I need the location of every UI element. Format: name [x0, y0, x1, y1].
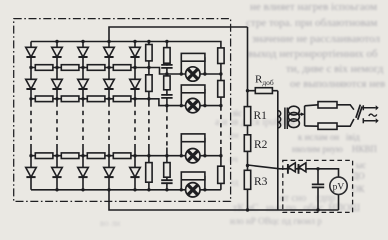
rectifier diode VD1 — [287, 164, 289, 174]
wire right chain lower — [220, 147, 222, 190]
transformer core — [285, 108, 287, 130]
transformer primary winding — [278, 111, 281, 128]
svg-text:R3: R3 — [254, 176, 268, 188]
resistor row 1 cell 3-4 — [87, 65, 105, 71]
capacitor column B middle — [161, 95, 172, 98]
dashed box around rectifier-meter unit — [283, 160, 353, 212]
transformer secondary winding — [288, 106, 299, 127]
lamp cell 3 resistor stubs — [181, 138, 205, 156]
resistor column B middle — [164, 76, 170, 90]
meter pV — [330, 177, 347, 194]
wire column B — [166, 42, 168, 190]
wire bottom bus — [31, 189, 221, 191]
resistor secondary bottom — [318, 123, 337, 129]
node dots bus 3 — [29, 154, 32, 157]
svg-text:Rдоб: Rдоб — [255, 74, 274, 88]
wire top bus — [31, 42, 221, 107]
wire secondary top lead — [305, 105, 354, 110]
dashed continuation column 3 — [82, 103, 84, 148]
resistor row 1 cell 2-3 — [61, 65, 79, 71]
resistor row 2 cell 2-3 — [61, 96, 79, 102]
wire column 3 — [82, 42, 84, 190]
diode row C column 4 — [104, 167, 115, 177]
resistor R1 — [244, 107, 250, 126]
faint bleed-through text from reverse page — [250, 1, 377, 13]
dashed continuation column A — [148, 103, 150, 148]
dashed continuation right chain — [220, 107, 222, 148]
resistor lamp cell 3 — [181, 134, 205, 142]
diode row C column 3 — [78, 167, 89, 177]
plug body — [356, 105, 362, 120]
plug prong top — [363, 105, 375, 110]
resistor row 2 cell 1-2 — [35, 96, 53, 102]
wire column 2 — [56, 42, 58, 190]
resistor lamp cell 2 — [181, 85, 205, 93]
resistor row 3 cell 3-4 — [87, 153, 105, 159]
wire capacitor branch — [317, 169, 319, 210]
resistor row 3 cell 1-2 — [35, 153, 53, 159]
diode row A column 3 — [78, 47, 89, 57]
diode row B column 4 — [104, 79, 115, 89]
svg-text:R2: R2 — [254, 139, 268, 151]
lamp cell 1 resistor stubs — [181, 57, 205, 74]
wire meter bottom lead — [338, 195, 340, 211]
node dots divider chain — [246, 89, 249, 92]
resistor column A bottom — [146, 163, 152, 183]
plug prong bottom — [363, 118, 375, 123]
diode row A column 1 — [26, 47, 37, 57]
diode row A column 2 — [52, 47, 63, 57]
node dots lamp line 2 — [165, 104, 168, 107]
wire bus 1 with jog — [31, 68, 221, 75]
lamp HL3 — [186, 149, 200, 163]
resistor column B bottom — [164, 163, 170, 178]
diode row C column 2 — [52, 167, 63, 177]
resistor row 1 cell 1-2 — [35, 65, 53, 71]
AC tilde mark — [369, 114, 377, 116]
svg-text:R1: R1 — [254, 110, 268, 122]
resistor R3 — [244, 170, 250, 189]
dashed continuation column 2 — [56, 103, 58, 148]
resistor row 3 cell 4-5 — [113, 153, 131, 159]
wire secondary bottom lead — [305, 119, 354, 126]
dashed continuation column 4 — [108, 103, 110, 148]
diode row C column 5 — [130, 167, 141, 177]
node dots bottom bus — [55, 188, 58, 191]
resistor R2 — [244, 135, 250, 152]
resistor row 3 cell 2-3 — [61, 153, 79, 159]
resistor column B top — [164, 48, 170, 64]
dashed continuation column B — [166, 108, 168, 148]
wire bus 3 — [31, 155, 221, 157]
node dots bus 1 — [29, 66, 32, 69]
wire column 5 — [134, 42, 136, 190]
dashed continuation column 1 — [30, 103, 32, 148]
node dots rectifier box — [316, 167, 319, 170]
wire bottom return — [109, 190, 339, 210]
diode row B column 1 — [26, 79, 37, 89]
resistor lamp cell 1 — [181, 53, 205, 61]
lamp HL1 — [186, 67, 200, 81]
lamp cell 2 resistor stubs — [181, 89, 205, 106]
diode row A column 5 — [130, 47, 141, 57]
capacitor column B top — [161, 65, 172, 68]
dashed continuation column 5 — [134, 103, 136, 148]
diode row C column 1 — [26, 167, 37, 177]
lamp HL2 — [186, 98, 200, 112]
svg-text:pV: pV — [333, 182, 345, 192]
resistor column A top — [146, 45, 152, 61]
wire secondary vertical lead — [304, 106, 306, 126]
wire bus 2 with jog — [31, 99, 221, 106]
resistor row 2 cell 3-4 — [87, 96, 105, 102]
node dots lamp line 1 — [165, 72, 168, 75]
rectifier diode VD2 — [298, 164, 300, 174]
resistor right chain bottom — [218, 166, 224, 183]
resistor row 2 cell 4-5 — [113, 96, 131, 102]
resistor right chain top — [218, 48, 224, 64]
diode row B column 3 — [78, 79, 89, 89]
wire main divider line — [247, 27, 249, 210]
diode row A column 4 — [104, 47, 115, 57]
resistor R_dob — [255, 88, 272, 94]
resistor lamp cell 4 — [181, 172, 205, 180]
capacitor filter — [312, 184, 324, 187]
wire column 1 — [30, 42, 32, 190]
resistor secondary top — [318, 102, 337, 108]
wire top link to divider — [109, 27, 248, 42]
resistor column A middle — [146, 75, 152, 92]
wire divider tap to rectifier box — [248, 165, 339, 177]
diode row B column 2 — [52, 79, 63, 89]
node dots top bus — [55, 40, 58, 43]
lamp HL4 — [186, 183, 200, 197]
resistor row 1 cell 4-5 — [113, 65, 131, 71]
node dots bus 2 — [29, 97, 32, 100]
transformer secondary arrow — [297, 113, 302, 115]
wire column 4 — [108, 42, 110, 190]
wire R_dob branch to transformer primary — [248, 91, 278, 210]
resistor right chain middle — [218, 81, 224, 98]
outer dash-dot enclosure border — [14, 19, 231, 202]
lamp cell 4 resistor stubs — [181, 176, 205, 190]
diode row B column 5 — [130, 79, 141, 89]
wire column A — [148, 42, 150, 190]
capacitor column B bottom — [161, 180, 172, 183]
